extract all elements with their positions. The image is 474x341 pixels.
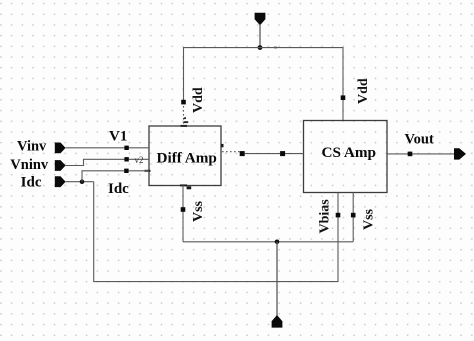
pin Vdd of Diff Amp: [181, 100, 186, 105]
svg-text:Idc: Idc: [21, 174, 42, 190]
port Vninv: [55, 160, 66, 171]
pin label mark diff bottom: [187, 186, 192, 189]
wire ground stem: [276, 242, 278, 316]
pin out square Diff Amp: [240, 151, 245, 156]
wire bias net down: [94, 182, 338, 282]
amp block U2 CS Amp: [304, 121, 388, 193]
svg-text:Vinv: Vinv: [17, 138, 47, 154]
pin mark diff right edge: [221, 144, 224, 147]
port Idc: [55, 176, 66, 187]
pin tick diff bottom: [180, 184, 187, 186]
wire diff vss down: [182, 186, 184, 242]
svg-text:CS Amp: CS Amp: [322, 144, 376, 161]
pin Vss of Diff Amp: [181, 207, 186, 212]
wire vout: [387, 153, 455, 155]
port Vout: [454, 148, 466, 159]
pin tick diff left: [145, 170, 151, 172]
wire idc: [66, 181, 94, 183]
svg-text:Vss: Vss: [362, 208, 377, 230]
svg-text:Idc: Idc: [108, 181, 129, 197]
artifact dash on vdd wire: [274, 47, 277, 49]
pin Vbias of CS Amp: [336, 213, 341, 218]
wire dashed stub to Diff Amp top: [183, 106, 185, 126]
junction dot vss: [275, 240, 280, 245]
wire vninv: [66, 159, 149, 165]
wire vdd right drop: [342, 47, 344, 121]
svg-text:v2: v2: [135, 155, 144, 165]
wire vdd left drop: [183, 47, 185, 103]
svg-text:Vninv: Vninv: [10, 157, 49, 173]
wire vss horizontal: [183, 241, 353, 243]
pin label mark diff top a: [184, 117, 186, 119]
pin label mark diff top b: [184, 121, 188, 123]
svg-text:V1: V1: [109, 129, 127, 145]
svg-text:Vdd: Vdd: [356, 78, 371, 104]
wire vdd stem: [259, 25, 261, 48]
wire between amps: [245, 153, 304, 155]
pin V2 square: [124, 157, 128, 161]
svg-text:Vout: Vout: [405, 131, 434, 147]
pin tick diff top: [181, 125, 188, 127]
wire vinv: [66, 147, 149, 149]
pin V1 square: [124, 146, 128, 150]
pin Vdd of CS Amp: [341, 95, 346, 100]
port Vinv: [55, 143, 66, 154]
svg-text:Diff Amp: Diff Amp: [157, 149, 217, 166]
pin Vss of CS Amp: [351, 213, 356, 218]
pin in square CS Amp: [280, 151, 285, 156]
junction dot vdd: [258, 45, 263, 50]
ground symbol: [272, 315, 283, 328]
wire idc branch up: [82, 171, 149, 182]
power symbol VDD top: [255, 13, 266, 25]
wire cs vss down: [352, 193, 354, 242]
svg-text:Vss: Vss: [191, 200, 206, 222]
junction dot idc: [80, 179, 85, 184]
wire vdd horizontal: [184, 47, 344, 49]
wire output dashed stub: [222, 151, 240, 153]
op-amp block U1 Diff Amp: [149, 126, 221, 186]
svg-text:Vbias: Vbias: [318, 199, 333, 234]
pin vout square: [408, 152, 413, 157]
pin Idc square: [124, 169, 128, 173]
svg-text:Vdd: Vdd: [191, 87, 206, 113]
